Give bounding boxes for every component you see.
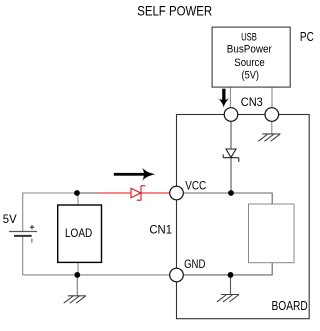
connector pin CN3-1 xyxy=(224,108,238,122)
board outline xyxy=(177,115,310,319)
svg-text:BOARD: BOARD xyxy=(272,298,308,313)
junction node battery/LOAD top xyxy=(74,190,80,196)
wire battery bottom vertical xyxy=(23,236,170,275)
battery 5V plates xyxy=(9,231,37,233)
wire LOAD top xyxy=(77,193,79,205)
svg-text:BusPower: BusPower xyxy=(227,44,272,56)
red wire diode to VCC pin xyxy=(141,192,170,194)
svg-text:GND: GND xyxy=(184,257,206,271)
wire GND line inside board xyxy=(184,263,273,275)
svg-text:SELF POWER: SELF POWER xyxy=(137,3,212,19)
wire zener to VCC junction xyxy=(230,158,232,193)
ground below LOAD junction xyxy=(64,296,86,303)
svg-text:5V: 5V xyxy=(3,212,17,226)
current arrow down (USB to CN3) xyxy=(218,89,229,108)
wire USB box to CN3 pin2 xyxy=(271,87,273,108)
svg-text:CN3: CN3 xyxy=(241,95,263,109)
junction node battery/LOAD bottom xyxy=(74,272,80,278)
inner component rectangle xyxy=(249,204,295,263)
battery minus mark xyxy=(31,238,33,242)
connector pin CN3-2 xyxy=(265,108,279,122)
ground below GND junction xyxy=(217,295,239,302)
USB BusPower Source box xyxy=(212,27,290,87)
ground below CN3 pin2 xyxy=(258,134,280,141)
wire CN3 pin2 to ground xyxy=(271,121,273,134)
zener diode D1 vertical (CN3 to VCC) xyxy=(223,149,239,162)
wire USB box to CN3 pin1 xyxy=(229,87,231,108)
wire LOAD bottom xyxy=(77,262,79,275)
svg-text:CN1: CN1 xyxy=(149,223,172,237)
svg-text:VCC: VCC xyxy=(185,179,206,193)
current arrow right (battery to VCC) xyxy=(114,168,155,181)
battery plus sign xyxy=(30,226,35,228)
wire ground stub below load junction xyxy=(76,275,78,296)
LOAD box xyxy=(58,205,102,262)
junction node VCC/zener xyxy=(228,190,234,196)
zener diode D2 red horizontal xyxy=(131,186,145,200)
wire VCC line inside board xyxy=(184,193,273,204)
svg-text:PC: PC xyxy=(300,29,314,44)
wire CN3 pin1 to zener xyxy=(230,121,232,149)
svg-text:Source: Source xyxy=(234,57,264,69)
svg-text:(5V): (5V) xyxy=(242,69,259,81)
connector pin VCC xyxy=(170,186,184,200)
wire battery top vertical xyxy=(23,193,77,231)
svg-text:USB: USB xyxy=(241,31,257,43)
connector pin GND xyxy=(170,268,184,282)
junction node GND/ground xyxy=(228,272,234,278)
wire ground stub below GND junction xyxy=(230,275,232,295)
svg-text:LOAD: LOAD xyxy=(65,226,92,240)
wire top from junction to diode xyxy=(77,192,98,194)
red wire battery to diode xyxy=(98,192,132,194)
